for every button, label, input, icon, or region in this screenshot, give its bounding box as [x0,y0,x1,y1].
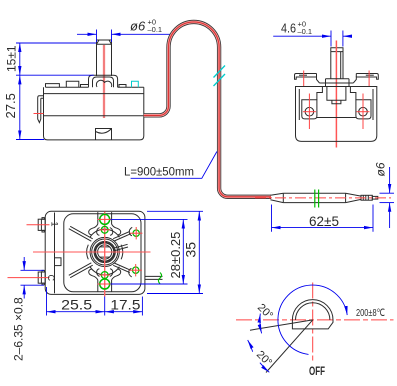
side view top plate and tabs [46,81,144,87]
bulb body [270,193,377,202]
text phi6 [130,18,162,35]
bottom view bottom hole small [101,272,108,279]
bottom view terminal C [38,270,45,284]
front view shaft [331,48,343,79]
svg-text:25.5: 25.5 [61,296,92,312]
bottom view boss circles [90,237,119,266]
dimension 28±0.25 [111,219,188,284]
svg-text:28±0.25: 28±0.25 [168,232,183,279]
bottom view wall notch [55,258,62,266]
front view centerline [335,41,337,148]
bottom view top pocket [89,212,121,235]
bottom view top hole big [100,214,110,224]
front view left screw [305,107,314,116]
side view shaft [97,40,112,76]
svg-text:ø6: ø6 [374,162,388,176]
bottom view terminal 1 [38,218,45,232]
bottom view capillary stub [145,276,163,279]
svg-text:C: C [46,275,56,282]
bottom view right hole bottom [133,267,139,273]
side view bottom notch [96,129,112,140]
bottom view inner face [64,214,141,292]
bulb centerline [255,197,391,199]
dimension phi6 shaft [77,30,175,43]
front view left ear [295,74,320,84]
side view shaft centerline [103,45,105,118]
capillary tube [144,22,271,197]
dimension 27.5 [16,75,44,139]
knob cam profile [292,300,333,329]
dimension phi6 bulb [380,167,395,228]
svg-text:200±8℃: 200±8℃ [356,307,385,319]
svg-text:–0.1: –0.1 [298,27,313,36]
svg-text:62±5: 62±5 [309,214,339,229]
bottom view moat arcs [87,229,123,275]
front view right ear [353,74,378,84]
bottom view inner wall [54,213,56,294]
dimension 62±5 [272,205,374,232]
angle arc 20 upper [260,314,262,334]
front view right screw [359,107,368,116]
bottom view bottom pocket [89,269,121,292]
angle arc 20 lower [248,340,253,352]
front view right screw boss [356,100,371,119]
bottom view bottom hole big [100,279,110,289]
knob radial line 1 [250,320,313,330]
bulb break marks (green) [315,190,319,208]
stub break (green) [158,273,161,284]
bottom view centerlines [104,212,106,297]
svg-text:ø6: ø6 [130,19,146,34]
side view left terminal [38,96,44,123]
svg-text:OFF: OFF [309,366,325,378]
svg-text:1: 1 [50,222,60,227]
svg-text:L=900±50mm: L=900±50mm [124,165,194,179]
dimension 35 [147,211,203,293]
svg-text:17.5: 17.5 [110,296,140,312]
dimension 25.5 / 17.5 [47,287,143,316]
front view inner walls [299,87,373,121]
text 4.6 [281,20,312,37]
front view left screw boss [302,100,317,119]
ear centerlines [303,71,305,87]
svg-text:35: 35 [183,242,199,258]
knob radial line 2 [266,320,313,373]
front view body [296,87,377,142]
knob diagram centerlines [236,283,394,361]
knob rotation arc [278,285,347,354]
side view terminal centerline [34,113,44,115]
bottom view right hole top [133,230,139,236]
bottom view top hole small [101,226,108,233]
side view terminal cover tab (teal) [132,81,139,87]
bottom view spokes [69,226,131,277]
side view bushing [89,75,118,87]
front view mounting plate [320,79,354,87]
side view body [44,87,144,140]
svg-text:2–6.35 ×0.8: 2–6.35 ×0.8 [12,297,26,361]
label L=900±50mm [124,152,217,179]
svg-text:–0.1: –0.1 [148,25,163,34]
svg-text:27.5: 27.5 [3,93,18,118]
dimension 2-6.35x0.8 [21,257,45,299]
svg-text:15±1: 15±1 [5,45,19,72]
dimension 4.6 [273,31,351,47]
bottom view right hooks [129,227,132,277]
tube break marks (cyan) [214,66,226,87]
dimension 15±1 [16,43,96,75]
bottom view outer body [45,211,145,294]
svg-text:4.6: 4.6 [281,21,296,36]
